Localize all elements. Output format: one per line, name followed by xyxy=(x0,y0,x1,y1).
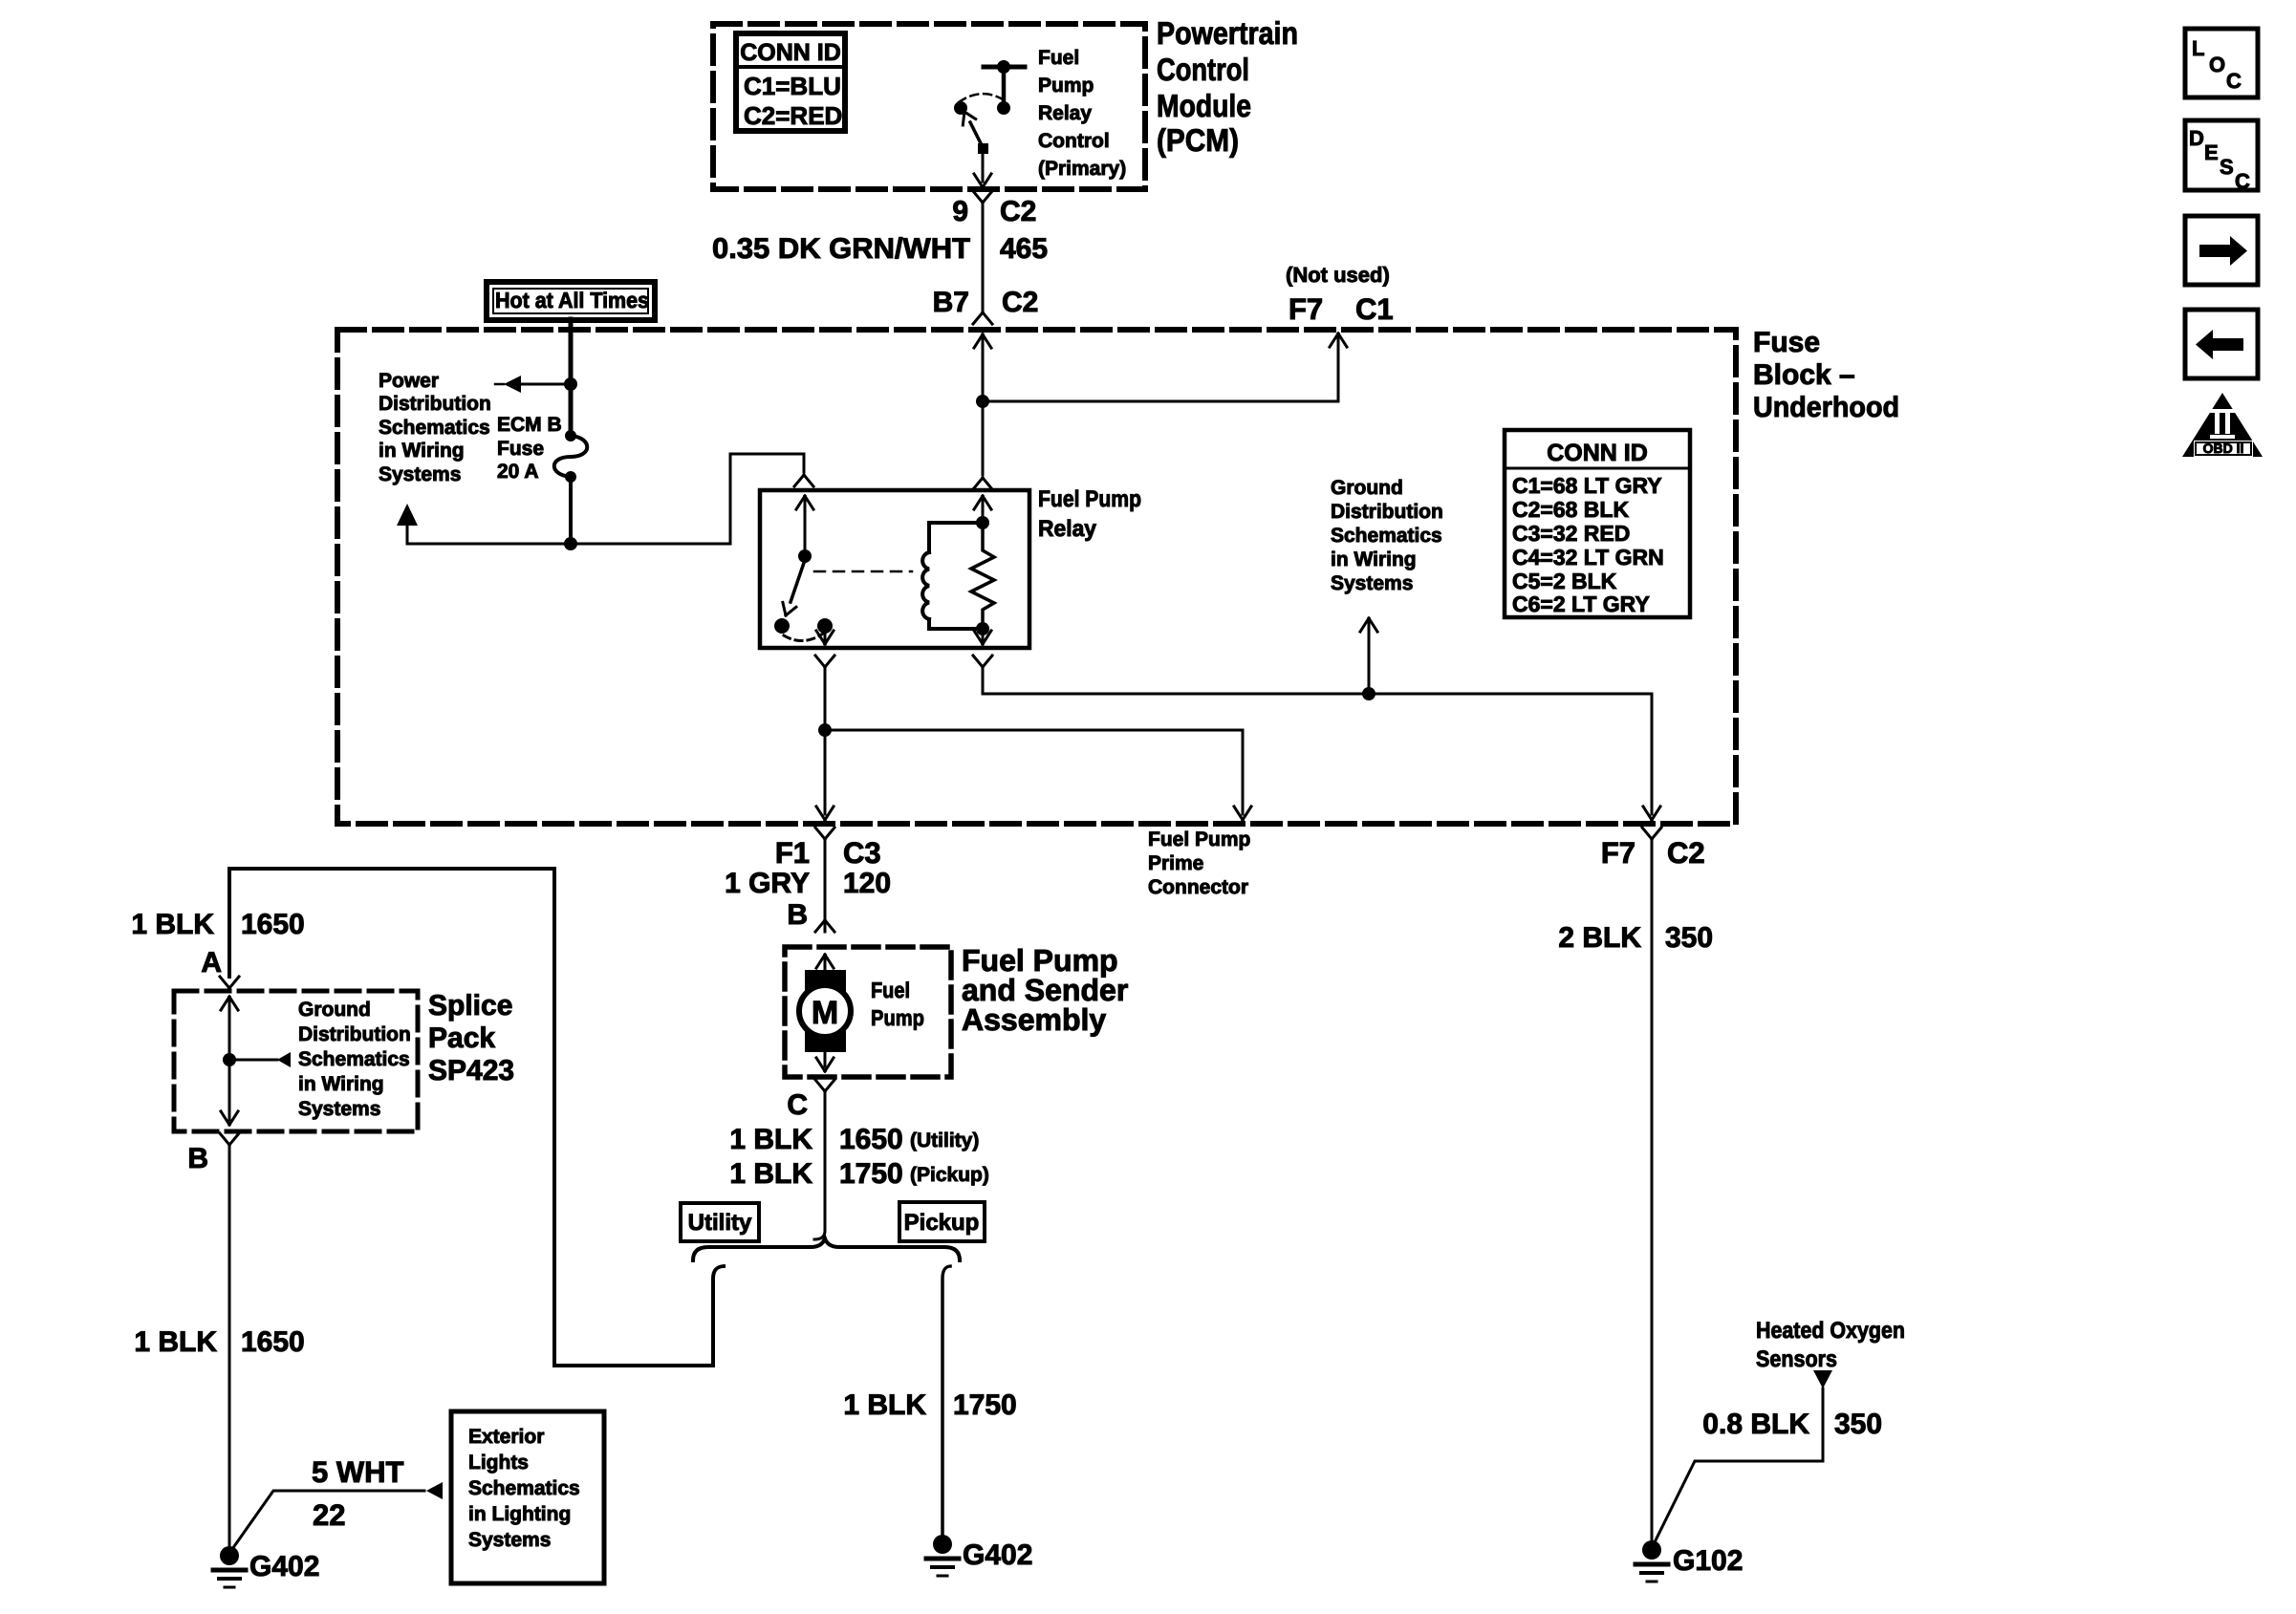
pin B label (splice) xyxy=(187,1133,239,1174)
relay coil terminals xyxy=(974,496,991,644)
icon forward arrow xyxy=(2185,216,2258,285)
svg-text:Schematics: Schematics xyxy=(298,1048,410,1070)
svg-text:Distribution: Distribution xyxy=(1331,501,1443,523)
svg-text:350: 350 xyxy=(1834,1409,1882,1440)
svg-text:A: A xyxy=(201,947,222,979)
svg-text:C1: C1 xyxy=(1355,292,1394,326)
svg-text:20 A: 20 A xyxy=(497,461,539,483)
connector relay terminal (top-left) xyxy=(794,475,813,486)
svg-text:Prime: Prime xyxy=(1148,852,1203,874)
node fuse output junction xyxy=(564,537,577,550)
svg-text:D: D xyxy=(2189,126,2204,150)
Exterior Lights box xyxy=(451,1411,604,1583)
label Powertrain Control Module (PCM) xyxy=(1157,15,1298,158)
ground G102 xyxy=(1635,1540,1743,1582)
label 0.8 BLK 350 xyxy=(1702,1409,1882,1440)
svg-text:E: E xyxy=(2204,140,2219,164)
splice reference arrow xyxy=(229,1052,291,1067)
svg-text:1650: 1650 xyxy=(839,1124,903,1155)
connector relay out left xyxy=(815,656,834,730)
wire coil ground run xyxy=(983,694,1660,820)
svg-text:C3=32 RED: C3=32 RED xyxy=(1512,521,1630,546)
svg-text:Assembly: Assembly xyxy=(962,1002,1106,1037)
svg-text:Fuel: Fuel xyxy=(1038,47,1079,69)
Hot at All Times box xyxy=(487,282,655,320)
wire pickup branch xyxy=(942,1266,950,1535)
svg-text:C2: C2 xyxy=(1667,836,1705,870)
wire PCM pin 9 drop xyxy=(974,148,991,187)
svg-text:C: C xyxy=(2226,69,2242,93)
wire to F7 C1 xyxy=(983,334,1347,401)
svg-text:B7: B7 xyxy=(933,287,969,318)
Utility tag box xyxy=(681,1203,759,1241)
node B7 wire junction xyxy=(976,395,989,408)
svg-text:C3: C3 xyxy=(843,836,881,870)
svg-text:Control: Control xyxy=(1038,130,1110,152)
svg-text:C1=68 LT GRY: C1=68 LT GRY xyxy=(1512,473,1662,498)
svg-text:CONN ID: CONN ID xyxy=(1547,440,1648,466)
svg-text:Fuse: Fuse xyxy=(1753,327,1820,358)
svg-text:B: B xyxy=(787,899,808,931)
label Heated Oxygen Sensors xyxy=(1756,1318,1905,1372)
svg-text:F1: F1 xyxy=(775,836,810,870)
svg-text:OBD II: OBD II xyxy=(2203,441,2244,456)
connector F7/C1 xyxy=(1289,292,1394,326)
fuse block underhood dashed box xyxy=(337,330,1736,824)
svg-text:L: L xyxy=(2192,36,2204,60)
svg-text:1 BLK: 1 BLK xyxy=(131,909,214,940)
svg-text:Pickup: Pickup xyxy=(904,1210,980,1236)
connector relay out right xyxy=(973,656,992,694)
label Fuse Block - Underhood xyxy=(1753,327,1899,423)
svg-text:B: B xyxy=(187,1143,208,1174)
svg-text:in Wiring: in Wiring xyxy=(1331,549,1417,570)
svg-text:C: C xyxy=(787,1089,808,1121)
svg-text:Distribution: Distribution xyxy=(379,393,491,415)
label 1 BLK 1650 (lower left) xyxy=(134,1326,304,1358)
wire fuse output xyxy=(569,477,573,544)
node power junction xyxy=(564,377,577,391)
svg-text:Module: Module xyxy=(1157,88,1251,123)
svg-text:G402: G402 xyxy=(249,1551,319,1582)
svg-text:22: 22 xyxy=(313,1498,345,1532)
svg-text:F7: F7 xyxy=(1601,836,1635,870)
svg-text:Fuel Pump: Fuel Pump xyxy=(1148,829,1250,850)
relay switch common xyxy=(796,496,813,563)
connector F7/C2 xyxy=(1601,828,1705,870)
brace (harness split) xyxy=(693,1238,960,1260)
svg-text:Underhood: Underhood xyxy=(1753,392,1899,423)
pin C label xyxy=(787,1080,834,1121)
svg-text:Schematics: Schematics xyxy=(379,417,490,439)
svg-text:Control: Control xyxy=(1157,52,1249,87)
PCM connector-ID table xyxy=(736,33,845,131)
icon DESC xyxy=(2185,120,2258,193)
wire battery feed xyxy=(569,319,574,436)
svg-text:1 BLK: 1 BLK xyxy=(729,1124,812,1155)
svg-text:1650: 1650 xyxy=(241,1326,305,1358)
relay switch arm xyxy=(783,563,804,615)
svg-text:C5=2 BLK: C5=2 BLK xyxy=(1512,569,1617,593)
svg-text:(Utility): (Utility) xyxy=(910,1130,979,1151)
svg-text:C1=BLU: C1=BLU xyxy=(744,72,841,100)
pin B label xyxy=(787,899,834,932)
label Fuel Pump and Sender Assembly xyxy=(962,943,1128,1037)
fuel pump relay box xyxy=(760,490,1029,648)
svg-text:Powertrain: Powertrain xyxy=(1157,15,1298,51)
svg-text:(Pickup): (Pickup) xyxy=(910,1164,989,1186)
svg-text:Hot at All Times: Hot at All Times xyxy=(495,288,649,312)
svg-text:Fuel: Fuel xyxy=(871,978,910,1002)
svg-text:5 WHT: 5 WHT xyxy=(312,1455,404,1489)
svg-text:Schematics: Schematics xyxy=(468,1477,580,1499)
svg-text:Distribution: Distribution xyxy=(298,1023,411,1045)
node ground dist junction xyxy=(1362,687,1375,700)
wire pump ground xyxy=(814,1091,825,1239)
label 1 BLK 1650 (Utility) xyxy=(729,1124,979,1155)
arrow from heated oxygen sensors xyxy=(1654,1370,1832,1544)
PCM driver switch (fuel pump relay control) xyxy=(954,60,1025,154)
svg-text:(PCM): (PCM) xyxy=(1157,122,1239,158)
label 1 BLK 1650 (upper left) xyxy=(131,909,304,940)
wire 465 dk grn/wht xyxy=(712,203,1048,312)
svg-text:1750: 1750 xyxy=(953,1389,1017,1421)
label Fuel Pump Relay Control (Primary) xyxy=(1038,47,1126,180)
wire to F1 connector xyxy=(816,730,834,820)
svg-text:in Wiring: in Wiring xyxy=(379,440,465,462)
svg-text:(Primary): (Primary) xyxy=(1038,158,1126,180)
svg-text:Systems: Systems xyxy=(1331,572,1413,594)
svg-text:465: 465 xyxy=(1000,233,1048,265)
node prime connector junction xyxy=(818,723,832,737)
icon back arrow xyxy=(2185,310,2258,378)
svg-text:Utility: Utility xyxy=(688,1210,752,1236)
icon OBD II xyxy=(2182,393,2263,457)
svg-text:1650: 1650 xyxy=(241,909,305,940)
svg-text:C6=2 LT GRY: C6=2 LT GRY xyxy=(1512,592,1650,616)
label Ground Distribution Schematics in Wiring Systems xyxy=(1331,477,1443,594)
arrow to ground distribution xyxy=(1360,618,1377,694)
svg-text:Systems: Systems xyxy=(468,1529,551,1551)
svg-text:in Lighting: in Lighting xyxy=(468,1503,571,1525)
wire fuse to relay xyxy=(571,454,804,544)
label Fuel Pump Prime Connector xyxy=(1148,829,1250,898)
svg-text:SP423: SP423 xyxy=(428,1055,514,1087)
fuel pump assembly dashed box xyxy=(785,947,951,1077)
wire splice to G402 xyxy=(228,1145,231,1546)
svg-text:Relay: Relay xyxy=(1038,516,1097,542)
svg-text:Heated Oxygen: Heated Oxygen xyxy=(1756,1318,1905,1344)
svg-text:1 GRY: 1 GRY xyxy=(725,868,810,899)
label Ground Distribution Schematics in Wiring Systems (splice) xyxy=(298,999,411,1120)
svg-text:Sensors: Sensors xyxy=(1756,1346,1837,1372)
svg-text:C4=32 LT GRN: C4=32 LT GRN xyxy=(1512,545,1664,570)
svg-text:ECM B: ECM B xyxy=(497,414,562,436)
svg-text:Exterior: Exterior xyxy=(468,1426,544,1448)
svg-text:G102: G102 xyxy=(1673,1545,1743,1577)
svg-text:0.8 BLK: 0.8 BLK xyxy=(1702,1409,1809,1440)
svg-text:(Not used): (Not used) xyxy=(1286,263,1390,287)
svg-text:1 BLK: 1 BLK xyxy=(134,1326,217,1358)
pin A label xyxy=(201,947,239,988)
svg-text:Lights: Lights xyxy=(468,1452,529,1474)
relay switch output xyxy=(816,626,834,644)
svg-text:in Wiring: in Wiring xyxy=(298,1073,384,1095)
svg-text:Connector: Connector xyxy=(1148,876,1248,898)
svg-text:F7: F7 xyxy=(1289,292,1323,326)
svg-text:Power: Power xyxy=(379,370,439,392)
splice pack dashed box xyxy=(174,991,418,1131)
PCM module dashed box xyxy=(713,24,1145,189)
fuse ECM B 20A xyxy=(554,430,588,483)
svg-text:Fuse: Fuse xyxy=(497,438,544,460)
svg-text:Block –: Block – xyxy=(1753,359,1855,391)
svg-text:C2=68 BLK: C2=68 BLK xyxy=(1512,497,1629,522)
svg-text:Pack: Pack xyxy=(428,1022,495,1054)
svg-text:G402: G402 xyxy=(963,1539,1032,1571)
svg-text:Splice: Splice xyxy=(428,990,512,1022)
svg-text:Ground: Ground xyxy=(298,999,371,1021)
label ECM B Fuse 20 A xyxy=(497,414,562,483)
svg-text:C2: C2 xyxy=(1002,287,1038,318)
svg-text:350: 350 xyxy=(1665,922,1713,954)
svg-text:Pump: Pump xyxy=(871,1005,924,1030)
svg-text:S: S xyxy=(2220,155,2234,179)
connector B7/C2 xyxy=(933,287,1039,401)
wire 120 gry xyxy=(725,839,891,932)
ground G402 (center) xyxy=(926,1535,1032,1576)
relay coil xyxy=(922,516,989,635)
svg-text:Relay: Relay xyxy=(1038,102,1092,124)
svg-text:1 BLK: 1 BLK xyxy=(843,1389,926,1421)
label 1 BLK 1750 (Pickup) xyxy=(729,1158,989,1190)
svg-text:C: C xyxy=(2235,169,2250,193)
connector F1/C3 xyxy=(775,828,881,870)
label Fuel Pump (motor) xyxy=(871,978,924,1030)
svg-text:1 BLK: 1 BLK xyxy=(729,1158,812,1190)
svg-text:9: 9 xyxy=(952,196,968,227)
arrow to power distribution (ref) xyxy=(397,504,571,544)
wire 5 WHT 22 xyxy=(232,1455,443,1549)
splice internal wire xyxy=(221,997,238,1125)
Pickup tag box xyxy=(899,1202,985,1241)
wire utility branch xyxy=(229,869,724,1366)
label (Not used) xyxy=(1286,263,1390,287)
svg-text:Ground: Ground xyxy=(1331,477,1403,499)
svg-text:CONN ID: CONN ID xyxy=(740,39,841,66)
svg-text:O: O xyxy=(2209,53,2225,76)
wire 350 blk xyxy=(1558,839,1713,1540)
connector relay terminal (top-right) xyxy=(973,401,992,489)
relay resistor xyxy=(971,523,994,629)
label Fuel Pump Relay xyxy=(1038,486,1141,542)
wire fuel pump prime xyxy=(825,730,1251,820)
svg-text:Systems: Systems xyxy=(298,1098,380,1120)
fuel pump motor output xyxy=(816,1052,834,1071)
svg-text:2 BLK: 2 BLK xyxy=(1558,922,1641,954)
svg-text:120: 120 xyxy=(843,868,891,899)
svg-text:Fuel Pump: Fuel Pump xyxy=(1038,486,1141,512)
svg-text:C2: C2 xyxy=(1000,196,1036,227)
arrow to power distribution xyxy=(495,376,571,393)
svg-text:Systems: Systems xyxy=(379,463,461,485)
svg-text:M: M xyxy=(812,995,838,1031)
label Power Distribution Schematics in Wiring Systems xyxy=(379,370,491,485)
connector 9/C2 xyxy=(952,191,1036,227)
relay switch contacts xyxy=(774,618,833,641)
svg-text:Pump: Pump xyxy=(1038,75,1094,97)
icon LOC xyxy=(2185,29,2258,97)
fuel pump motor M xyxy=(799,955,851,1052)
svg-text:0.35 DK GRN/WHT: 0.35 DK GRN/WHT xyxy=(712,233,970,265)
svg-text:Schematics: Schematics xyxy=(1331,525,1442,547)
label Splice Pack SP423 xyxy=(428,990,514,1087)
ground G402 (left) xyxy=(213,1546,319,1587)
label 1 BLK 1750 xyxy=(843,1389,1016,1421)
svg-text:C2=RED: C2=RED xyxy=(744,101,842,130)
fuse block connector-ID table xyxy=(1505,430,1690,617)
svg-text:1750: 1750 xyxy=(839,1158,903,1190)
relay linkage (dashed) xyxy=(814,570,912,573)
